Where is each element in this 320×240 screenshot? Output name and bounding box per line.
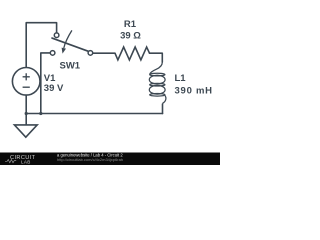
terminal T2 [50,51,55,56]
svg-text:R1: R1 [124,19,137,30]
watermark bar [0,153,220,166]
arc [64,30,72,48]
flat loop 3 [150,94,165,97]
wire V1 bottom [25,95,27,113]
svg-text:SW1: SW1 [60,60,81,71]
svg-text:http://circuitlab.com/c/4c2m34: http://circuitlab.com/c/4c2m34jxp6rah [57,157,123,162]
terminal common [88,51,93,56]
junction node A (V1/ground/rail) [25,112,28,115]
ground [14,114,37,138]
svg-text:39 Ω: 39 Ω [120,30,141,41]
wire resistor to inductor top [150,53,163,62]
inductor L1 [149,62,166,103]
svg-text:39 V: 39 V [44,83,64,94]
flat loop 1 [150,73,165,76]
ring 2 [149,85,165,94]
svg-text:L1: L1 [175,73,187,84]
wire bottom rail [26,113,162,115]
blade [52,38,88,51]
wire top-left from V1 top to switch [26,23,56,67]
wire switch common to resistor [93,52,115,54]
svg-text:390 mH: 390 mH [175,86,213,97]
arrowhead [62,48,66,54]
svg-text:LAB: LAB [21,159,31,164]
CircuitLab logo [5,155,36,165]
resistor R1 [115,47,150,60]
terminal T1 [54,33,59,38]
exit swing [163,95,166,103]
ring 1 [149,75,165,84]
voltage source V1 [12,68,40,96]
flat loop 2 [150,83,165,86]
switch SW1 [50,30,92,55]
entry swing [150,62,163,74]
junction node B (switch throw/rail) [39,112,42,115]
wire switch throw to bottom rail [41,53,50,114]
wire inductor bottom [162,104,164,114]
